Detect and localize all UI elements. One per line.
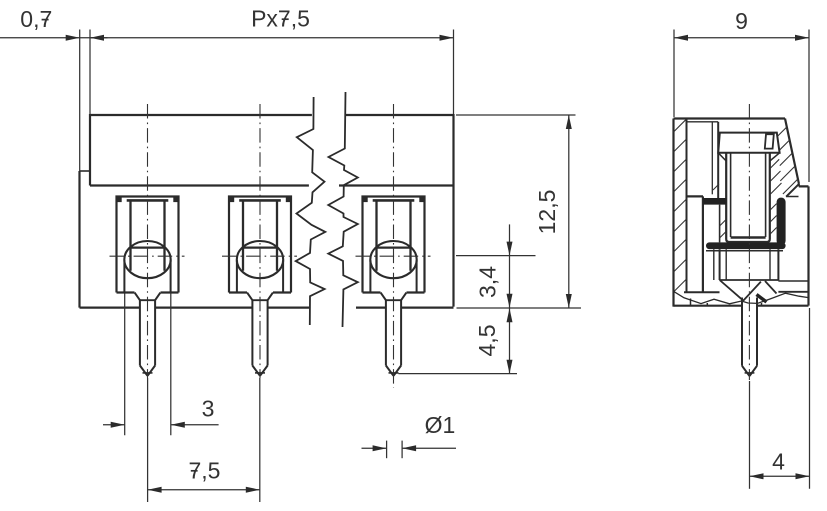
pin 1 tip cone [140,366,155,376]
arrow Px7,5 right [440,35,454,41]
terminal cell 2 [229,197,291,293]
section stubs [691,299,762,306]
pin 1 entry funnel [135,293,161,301]
side chamber floor [687,195,704,197]
dim 7,5 extension left [147,378,149,502]
cell 3 box outline [363,197,425,293]
crossbar of 7 in 0,7 [42,19,49,21]
arrow 7,5 right [246,487,260,493]
pin 3 shoulder [385,299,402,301]
pin 1 tip point [144,373,151,376]
clamp right wall [777,198,786,246]
cell 3 screw head circle [370,241,416,278]
right chamfer hatching [713,127,798,196]
side solder pin [742,298,757,377]
body left edge upper [89,114,91,186]
centerline terminal 3 vertical [393,104,395,388]
body top edge [80,114,454,308]
dim 4,5 extension bottom (pin tip level) [399,373,518,375]
solder pin 3 [381,293,407,376]
pin 3 tip cone [386,366,401,376]
arrow 3,4 top [507,242,513,256]
right notch floor [786,183,799,196]
svg-text:9: 9 [735,8,748,34]
dim dia1 line [362,447,457,449]
arrow dia1 left [373,445,387,451]
break line left [296,97,326,325]
clamp plate lower outline [706,250,783,252]
arrow dia1 right [402,445,416,451]
cell 1 box outline [117,197,179,293]
cell 2 clamp chamber walls [243,201,277,271]
saddle right diagonal [765,281,777,294]
cell 2 corner block right [286,197,291,202]
side body bottom edge [674,305,809,307]
clamp bottom bar [706,242,786,249]
screw shank outer [726,153,770,242]
dim 0,7 extension line right [89,30,91,115]
section wavy break line [674,291,809,304]
arrow 3 right [171,422,185,428]
dim Px7,5 line [90,37,454,39]
dim 12,5 line [568,115,570,308]
clamp right wall hatch [770,204,776,234]
svg-text:4: 4 [772,449,785,475]
side left wall bottom step [684,291,720,293]
pocket walls [714,183,809,291]
dim 3 extension right [170,294,172,436]
centerline terminal 2 vertical [259,104,261,378]
cell 1 clamp slot top [131,247,165,249]
terminal cell 1 [117,197,179,293]
screw shank inner bottom [731,236,766,238]
cell 3 corner block left [363,197,368,202]
arrow 4 right [796,473,810,479]
dim 9 extension left [673,30,675,118]
break line right [328,92,358,327]
pin 3 entry funnel [381,293,407,301]
dim dia1 extension left [386,441,388,459]
right lower step lines [778,280,808,282]
dim 9 line [674,37,809,39]
side left wall inner edge [686,119,688,293]
side chamber right wall thick [717,122,719,199]
crossbar of 7 in Px7,5 [282,18,289,20]
arrow 12,5 bottom [566,294,572,308]
pin 2 shaft [252,300,267,365]
arrow 3 left [111,422,125,428]
cell 3 wire protector bar [373,199,415,202]
side view centerline [748,104,750,380]
side chamber top line [687,121,719,123]
cell 2 screw head circle [237,241,283,278]
svg-text:12,5: 12,5 [534,190,560,235]
clamp top-left bar [703,198,726,205]
dim 3,4 extension top [456,255,536,257]
dim 0,7 line [0,37,108,39]
dim 3,4 line [509,224,511,308]
arrow 0,7 right / Px7,5 left [90,35,104,41]
clamp left wall [719,205,721,243]
cell 1 corner block left [117,197,122,202]
saddle thick diagonal [757,295,767,303]
arrow 4 left [750,473,764,479]
svg-text:3,4: 3,4 [475,266,501,298]
dim 3 line [103,424,219,426]
cell 2 clamp slot top [243,247,277,249]
pin 2 tip point [257,373,264,376]
dim 7,5 extension right [259,378,261,502]
pin 3 tip point [390,373,397,376]
cell 1 clamp chamber walls [131,201,165,271]
dim dia1 extension right [401,441,403,459]
arrow 7,5 left [148,487,162,493]
cell 2 wire protector bar [239,199,281,202]
clamp left wall hatch [720,219,727,238]
screw head [718,133,779,153]
pin 2 entry funnel [247,293,273,301]
shared extension bottom (12,5 / 3,4 / 4,5) [457,307,582,309]
left step line [80,170,91,172]
arrow 12,5 top [566,115,572,129]
arrow 0,7 left [66,35,80,41]
cell 3 corner block right [419,197,424,202]
centerline terminal 1 horizontal [110,255,185,257]
right strip hatch [771,159,782,194]
dim Px7,5 extension right [453,30,455,115]
centerline terminal 2 horizontal [222,255,297,257]
pin guide saddle triangles [720,280,761,301]
crossbar of 7 in 7,5 [191,470,198,472]
cell 3 screw bore walls [370,260,416,292]
centerline terminal 3 horizontal [356,255,431,257]
body left edge lower [78,171,80,308]
arrow 3,4 bottom [507,294,513,308]
pin 2 tip flat [255,372,265,374]
screw neck chamfers [718,153,779,161]
cell 3 clamp chamber walls [377,201,411,271]
svg-text:Px7,5: Px7,5 [251,6,310,32]
dim 12,5 extension top [456,114,576,116]
side body outline [674,119,809,307]
cell 1 corner block right [173,197,178,202]
cell 1 screw head circle [124,241,170,278]
cell 1 wire protector bar [127,199,169,202]
pocket wall inner left [713,249,715,280]
cell 2 screw bore walls [237,260,283,292]
cell 2 box outline [229,197,291,293]
screw shank inner thread lines [731,153,766,237]
cell 2 corner block left [230,197,235,202]
arrow 9 right [795,35,809,41]
terminal cell 3 [363,197,425,293]
arrow 9 left [674,35,688,41]
pin 3 shaft [386,300,401,365]
pin 2 shoulder [252,299,269,301]
pin 2 tip cone [252,366,267,376]
arrow 4,5 bottom [507,360,513,374]
left wall hatching [674,119,687,292]
dim 4 extension right [809,308,811,489]
centerline terminal 1 vertical [147,104,149,378]
pin 1 shoulder [139,299,156,301]
svg-text:4,5: 4,5 [474,325,500,357]
side chamber right wall thin [711,122,713,195]
arrow 4,5 top [507,308,513,322]
cell 3 clamp slot top [377,247,411,249]
solder pin 1 [135,293,161,376]
dim 9 extension right [808,30,810,183]
dim 0,7 extension line left [79,30,81,172]
body bottom edge [80,307,454,309]
dim 4 extension left (pin axis) [749,381,751,489]
svg-text:Ø1: Ø1 [425,412,456,438]
housing split line [90,184,454,186]
svg-text:3: 3 [202,396,215,422]
dim 4 line [750,475,810,477]
pin 3 tip flat [389,372,399,374]
cell 1 screw bore walls [124,260,170,292]
solder pin 2 [247,293,273,376]
dim 4,5 line [509,308,511,374]
pin 1 tip flat [143,372,153,374]
side inner wall [702,196,704,292]
pin 1 shaft [140,300,155,365]
body right edge [452,114,454,307]
dim 7,5 line [148,489,260,491]
pocket floor [720,279,779,281]
screw slot [765,134,774,148]
dim 3 extension left [124,294,126,436]
